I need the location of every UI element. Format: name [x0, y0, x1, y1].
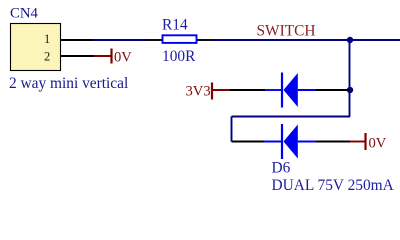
- svg-text:SWITCH: SWITCH: [257, 23, 316, 40]
- svg-text:0V: 0V: [369, 136, 387, 152]
- svg-text:3V3: 3V3: [186, 84, 211, 100]
- svg-text:2 way mini vertical: 2 way mini vertical: [9, 75, 128, 92]
- svg-text:DUAL 75V 250mA: DUAL 75V 250mA: [272, 177, 394, 194]
- svg-text:R14: R14: [162, 17, 188, 34]
- svg-text:0V: 0V: [114, 50, 132, 66]
- svg-text:2: 2: [44, 50, 50, 64]
- svg-text:1: 1: [44, 32, 50, 46]
- svg-text:D6: D6: [272, 160, 291, 177]
- svg-text:CN4: CN4: [10, 6, 39, 22]
- svg-text:100R: 100R: [162, 48, 196, 65]
